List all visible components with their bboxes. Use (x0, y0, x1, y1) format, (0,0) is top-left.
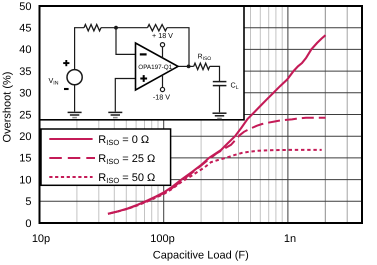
wire op-amp output to RISO (178, 65, 194, 67)
minor gridlines 2n and 3n (slightly darker) (324, 6, 326, 223)
inverting input (-) mark (140, 53, 147, 55)
legend sample solid (49, 138, 92, 140)
non-inverting input (+) mark (140, 75, 147, 82)
circuit inset box (40, 6, 245, 120)
legend sample long dash (49, 157, 95, 159)
x axis tick labels (32, 233, 296, 245)
minor vertical gridlines (log) (77, 6, 282, 223)
y axis tick labels (19, 1, 31, 230)
voltage source VIN (67, 70, 82, 85)
svg-text:Capacitive Load (F): Capacitive Load (F) (153, 250, 249, 262)
resistor R2 (feedback) (148, 25, 167, 31)
svg-text:25: 25 (19, 109, 31, 121)
svg-text:+ 18 V: + 18 V (152, 31, 173, 40)
junction node at output (187, 65, 191, 69)
svg-text:0: 0 (25, 218, 31, 230)
svg-text:15: 15 (19, 153, 31, 165)
curve RISO = 0 ohm (solid, pink) (108, 35, 326, 214)
plot frame (40, 6, 363, 223)
svg-text:45: 45 (19, 23, 31, 35)
VIN polarity marks (+ / -) (63, 60, 69, 89)
svg-text:10p: 10p (32, 233, 50, 245)
wire RISO to CL (210, 66, 220, 81)
svg-text:50: 50 (19, 1, 31, 13)
resistor RISO (194, 63, 210, 69)
svg-text:1n: 1n (284, 233, 296, 245)
svg-text:30: 30 (19, 88, 31, 100)
curve RISO = 25 ohm (long dash, pink) (108, 118, 326, 214)
svg-text:5: 5 (25, 196, 31, 208)
horizontal gridlines every 5% (40, 28, 363, 202)
ground (VIN) (68, 112, 82, 117)
svg-text:OPA197-Q1: OPA197-Q1 (138, 64, 172, 71)
legend labels (98, 134, 155, 185)
svg-text:40: 40 (19, 44, 31, 56)
wire R1 to junction and on to R2 (101, 27, 148, 29)
op-amp U1 OPA197-Q1 (136, 43, 179, 90)
wire top-left corner to R1 (75, 28, 84, 70)
junction node at R1/R2 (114, 26, 118, 30)
major vertical gridlines at 100p and 1n (164, 6, 288, 223)
ground (non-inverting input) (108, 112, 122, 117)
svg-text:Overshoot (%): Overshoot (%) (2, 72, 14, 143)
ground (CL) (213, 113, 227, 118)
svg-text:-18 V: -18 V (153, 92, 170, 101)
legend box (41, 129, 171, 185)
wire CL to ground (219, 86, 221, 112)
wire R2 to output node (167, 28, 189, 67)
wire junction to inverting input (116, 28, 136, 55)
wire VIN to ground (74, 85, 76, 112)
legend sample short dash (49, 176, 92, 178)
wire ground to non-inverting input (115, 79, 135, 112)
+18V supply pin (162, 47, 164, 59)
capacitor CL (213, 82, 227, 86)
resistor R1 (input) (84, 25, 101, 31)
svg-text:100p: 100p (150, 233, 174, 245)
-18V supply pin (162, 75, 164, 87)
svg-text:20: 20 (19, 131, 31, 143)
curve RISO = 50 ohm (short dash, pink) (108, 150, 322, 214)
svg-text:RISO = 0 Ω: RISO = 0 Ω (98, 134, 149, 147)
svg-text:10: 10 (19, 174, 31, 186)
svg-text:35: 35 (19, 66, 31, 78)
